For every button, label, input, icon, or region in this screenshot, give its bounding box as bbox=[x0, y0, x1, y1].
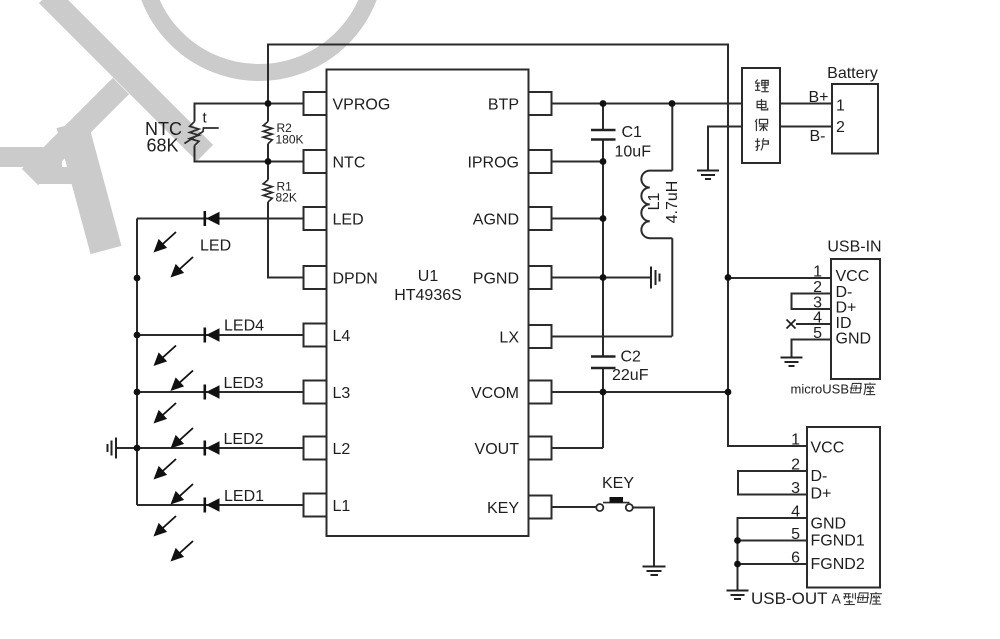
svg-text:3: 3 bbox=[791, 480, 800, 497]
svg-text:D+: D+ bbox=[836, 300, 857, 317]
svg-text:Battery: Battery bbox=[827, 65, 878, 82]
svg-text:GND: GND bbox=[811, 516, 847, 533]
svg-text:LED2: LED2 bbox=[224, 431, 264, 448]
svg-text:VOUT: VOUT bbox=[475, 441, 520, 458]
svg-text:USB-OUT: USB-OUT bbox=[751, 589, 828, 608]
svg-text:FGND2: FGND2 bbox=[811, 556, 865, 573]
svg-text:68K: 68K bbox=[147, 136, 179, 156]
svg-text:82K: 82K bbox=[276, 191, 297, 205]
svg-text:D-: D- bbox=[811, 468, 828, 485]
svg-text:NTC: NTC bbox=[333, 155, 366, 172]
svg-text:microUSB: microUSB bbox=[791, 382, 850, 397]
svg-text:4: 4 bbox=[813, 310, 822, 327]
svg-text:AGND: AGND bbox=[473, 212, 519, 229]
svg-text:C1: C1 bbox=[622, 124, 643, 141]
svg-text:D-: D- bbox=[836, 284, 853, 301]
svg-text:2: 2 bbox=[791, 457, 800, 474]
svg-text:2: 2 bbox=[836, 119, 845, 136]
svg-text:B-: B- bbox=[810, 128, 826, 145]
svg-text:B+: B+ bbox=[809, 89, 829, 106]
svg-text:L1: L1 bbox=[333, 498, 351, 515]
svg-text:KEY: KEY bbox=[602, 475, 634, 492]
svg-text:KEY: KEY bbox=[487, 500, 519, 517]
svg-text:IPROG: IPROG bbox=[467, 155, 519, 172]
svg-text:LX: LX bbox=[499, 330, 519, 347]
svg-text:VCC: VCC bbox=[836, 268, 870, 285]
svg-text:BTP: BTP bbox=[488, 97, 519, 114]
svg-text:C2: C2 bbox=[621, 349, 642, 366]
svg-text:USB-IN: USB-IN bbox=[827, 239, 881, 256]
svg-text:5: 5 bbox=[791, 526, 800, 543]
svg-text:LED: LED bbox=[333, 212, 364, 229]
svg-text:ID: ID bbox=[836, 315, 852, 332]
svg-text:GND: GND bbox=[836, 331, 872, 348]
svg-text:LED: LED bbox=[200, 238, 231, 255]
svg-text:4.7uH: 4.7uH bbox=[664, 181, 681, 224]
svg-text:1: 1 bbox=[836, 98, 845, 115]
svg-text:LED4: LED4 bbox=[224, 318, 264, 335]
svg-text:L3: L3 bbox=[333, 385, 351, 402]
svg-text:LED3: LED3 bbox=[224, 375, 264, 392]
svg-text:VCC: VCC bbox=[811, 440, 845, 457]
svg-text:180K: 180K bbox=[276, 133, 304, 147]
svg-text:DPDN: DPDN bbox=[333, 271, 378, 288]
svg-text:PGND: PGND bbox=[473, 271, 519, 288]
svg-text:L2: L2 bbox=[333, 441, 351, 458]
svg-text:10uF: 10uF bbox=[615, 144, 652, 161]
svg-text:LED1: LED1 bbox=[224, 488, 264, 505]
svg-text:U1: U1 bbox=[418, 268, 439, 285]
svg-text:2: 2 bbox=[813, 279, 822, 296]
svg-text:1: 1 bbox=[813, 264, 822, 281]
svg-text:VCOM: VCOM bbox=[471, 385, 519, 402]
svg-text:L1: L1 bbox=[646, 193, 663, 211]
svg-text:A: A bbox=[832, 591, 842, 607]
svg-text:VPROG: VPROG bbox=[333, 97, 391, 114]
svg-text:1: 1 bbox=[791, 432, 800, 449]
svg-text:L4: L4 bbox=[333, 328, 351, 345]
svg-text:D+: D+ bbox=[811, 486, 832, 503]
svg-text:6: 6 bbox=[791, 550, 800, 567]
svg-text:22uF: 22uF bbox=[612, 367, 649, 384]
svg-text:5: 5 bbox=[813, 325, 822, 342]
svg-text:HT4936S: HT4936S bbox=[394, 287, 462, 304]
svg-text:FGND1: FGND1 bbox=[811, 533, 865, 550]
svg-text:4: 4 bbox=[791, 504, 800, 521]
